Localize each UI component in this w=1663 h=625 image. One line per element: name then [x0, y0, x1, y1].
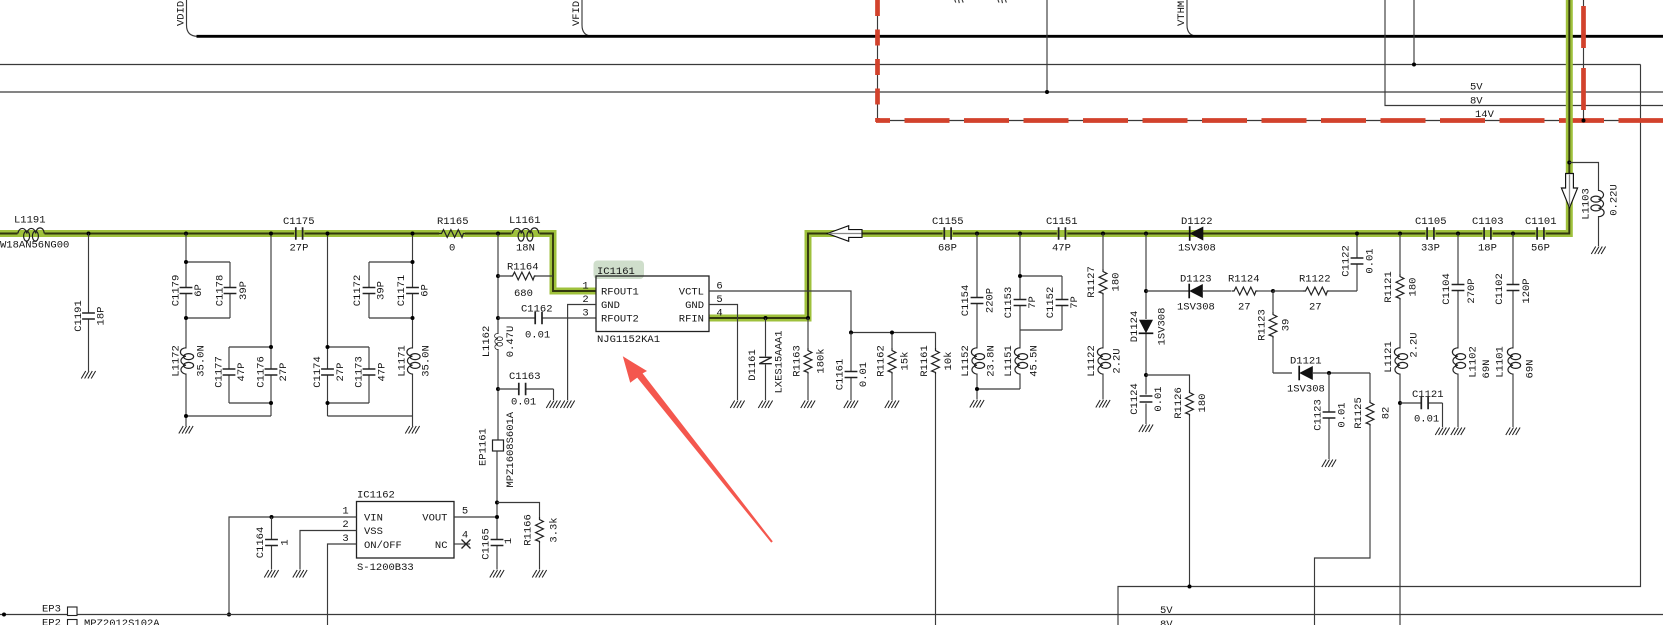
inductor L1121: [1383, 332, 1421, 625]
svg-text:L1152: L1152: [960, 345, 972, 377]
ground R1163: [801, 401, 815, 409]
capacitor C1152: [1045, 287, 1081, 319]
svg-text:MPZ2012S102A: MPZ2012S102A: [84, 618, 160, 625]
svg-text:C1123: C1123: [1313, 399, 1325, 431]
ground R1166: [532, 570, 546, 578]
svg-text:8V: 8V: [1160, 619, 1173, 625]
node junction (186,416): [184, 414, 188, 418]
node junction x=1047 on 5V rail: [1045, 90, 1049, 94]
svg-text:2: 2: [342, 519, 348, 531]
svg-text:D1123: D1123: [1180, 274, 1212, 286]
svg-text:L1172: L1172: [171, 345, 183, 377]
node junction (327.5,347): [326, 345, 330, 349]
svg-text:0.01: 0.01: [525, 330, 550, 342]
node junction red dash vertical on 14V rail: [1582, 119, 1586, 123]
svg-text:ON/OFF: ON/OFF: [364, 540, 402, 552]
op-amp IC1162 pin labels: [364, 513, 448, 553]
svg-text:5V: 5V: [1160, 605, 1173, 617]
svg-text:39P: 39P: [376, 281, 388, 300]
capacitor C1191: [73, 234, 108, 372]
svg-text:C1174: C1174: [312, 356, 324, 388]
svg-text:L1161: L1161: [509, 215, 541, 227]
op-amp IC1162 pin numbers: [342, 506, 468, 546]
node junction (186,262): [184, 260, 188, 264]
inductor L1161 series on bus: [509, 215, 541, 255]
node junction (498,276): [496, 274, 500, 278]
node junction (186,318): [184, 316, 188, 320]
ground C1165: [490, 570, 504, 578]
node junction (1458,233.5): [1456, 232, 1460, 236]
capacitor C1103 series on bus: [1472, 216, 1504, 255]
svg-text:3: 3: [582, 308, 588, 320]
capacitor C1122: [1341, 245, 1377, 277]
resistor R1122: [1273, 234, 1357, 314]
node junction (1020,276): [1018, 274, 1022, 278]
svg-text:R1126: R1126: [1173, 387, 1185, 419]
svg-text:2.2U: 2.2U: [1409, 332, 1421, 357]
svg-text:VIN: VIN: [364, 513, 383, 525]
inductor L1101: [1495, 346, 1537, 427]
wire C1153/C1152 sub-network: [1020, 234, 1062, 390]
svg-text:R1124: R1124: [1228, 274, 1260, 286]
node junction (229,614.5): [227, 613, 231, 617]
capacitor C1176: [256, 356, 291, 388]
node junction (808,318): [806, 316, 810, 320]
svg-text:RFOUT1: RFOUT1: [601, 287, 639, 299]
svg-text:120P: 120P: [1521, 278, 1533, 303]
capacitor C1104: [1441, 234, 1478, 349]
node junction (977,233.5): [975, 232, 979, 236]
svg-text:3: 3: [342, 533, 348, 545]
wire horizontal rail y=64.5: [0, 64, 1641, 66]
node junction (1357,233.5): [1355, 232, 1359, 236]
ground L1101: [1506, 428, 1520, 436]
svg-text:180: 180: [1197, 394, 1209, 413]
svg-text:R1121: R1121: [1383, 271, 1395, 303]
svg-text:C1121: C1121: [1412, 389, 1444, 401]
capacitor C1121: [1400, 389, 1444, 427]
node junction (1146,291): [1144, 289, 1148, 293]
wire pin1 VIN net: [229, 517, 357, 615]
svg-text:23.8N: 23.8N: [986, 345, 998, 377]
wire VTHM vertical with bus entry curve: [1187, 0, 1198, 36]
svg-text:C1153: C1153: [1003, 287, 1015, 319]
op-amp IC1162 box: [357, 502, 455, 559]
ground C1124: [1139, 425, 1153, 433]
wire 14V red dashed horizontal: [876, 118, 1663, 123]
inductor L1122: [1086, 345, 1124, 399]
wire 14V red dashed vertical right x=1583.5: [1583, 0, 1585, 121]
svg-text:D1121: D1121: [1290, 356, 1322, 368]
ground L1102: [1451, 428, 1465, 436]
inductor L1162: [481, 326, 517, 358]
svg-text:2.2U: 2.2U: [1112, 348, 1124, 373]
pin4 NC stub with no-connect X: [454, 540, 471, 549]
ground VSS: [293, 570, 307, 578]
diode D1122 series on bus: [1178, 216, 1216, 255]
svg-text:L1102: L1102: [1468, 346, 1480, 378]
bus thick horizontal line: [197, 35, 1663, 38]
ground R1162: [885, 401, 899, 409]
svg-text:L1151: L1151: [1003, 345, 1015, 377]
svg-text:R1127: R1127: [1086, 266, 1098, 298]
capacitor C1175 series on bus: [283, 216, 315, 255]
diode D1123: [1146, 274, 1231, 314]
svg-text:VTHM: VTHM: [1176, 1, 1188, 26]
capacitor C1155 series on bus: [932, 216, 964, 255]
svg-text:1: 1: [342, 506, 348, 518]
svg-text:VOUT: VOUT: [422, 513, 447, 525]
svg-text:27P: 27P: [278, 363, 290, 382]
svg-text:C1122: C1122: [1341, 245, 1353, 277]
capacitor C1162: [498, 304, 596, 342]
svg-text:47P: 47P: [1052, 243, 1071, 255]
node junction bus x=498: [496, 232, 500, 236]
resistor R1163: [792, 318, 828, 400]
ground pin5 IC1161: [730, 401, 744, 409]
svg-text:C1173: C1173: [354, 356, 366, 388]
node junction (765.5,318): [764, 316, 768, 320]
svg-text:1: 1: [280, 539, 292, 545]
inductor L1152: [960, 345, 1020, 399]
svg-text:C1179: C1179: [171, 275, 183, 307]
svg-text:0.01: 0.01: [1365, 248, 1377, 273]
wire stub marks top edge right: [998, 0, 1006, 3]
wire 5V rail y=92: [0, 91, 1663, 93]
capacitor C1178: [215, 275, 251, 307]
capacitor C1151 series on bus: [1046, 216, 1078, 255]
ground cluster A: [179, 426, 193, 434]
svg-text:4: 4: [716, 308, 722, 320]
svg-text:35.0N: 35.0N: [196, 345, 208, 377]
resistor R1125: [1315, 373, 1393, 625]
node junction (4,614.5): [2, 613, 6, 617]
node junction (892,332.5): [890, 331, 894, 335]
component EP2 square: [68, 620, 78, 625]
diode D1124: [1129, 308, 1169, 346]
svg-text:14V: 14V: [1475, 109, 1495, 121]
node junction x=1414: [1412, 63, 1416, 67]
svg-text:18N: 18N: [516, 243, 535, 255]
svg-text:L1122: L1122: [1086, 345, 1098, 377]
capacitor C1173: [354, 356, 389, 388]
wire highlighted RF path (green highlight): [0, 0, 1569, 318]
ground C1123: [1322, 460, 1336, 468]
svg-text:NC: NC: [435, 540, 448, 552]
ground cluster C: [405, 426, 419, 434]
svg-text:45.5N: 45.5N: [1029, 345, 1041, 377]
capacitor C1102: [1494, 234, 1533, 349]
wire pin2 GND stub to ground: [568, 305, 596, 401]
svg-text:27P: 27P: [290, 243, 309, 255]
svg-text:C1176: C1176: [256, 356, 268, 388]
svg-text:180: 180: [1111, 273, 1123, 292]
wire x=498 vertical bus to EP1161: [497, 234, 499, 441]
svg-text:EP1161: EP1161: [478, 428, 490, 466]
svg-text:C1154: C1154: [960, 285, 972, 317]
svg-text:R1123: R1123: [1257, 309, 1269, 341]
ground C1121: [1435, 428, 1449, 436]
svg-text:82: 82: [1381, 407, 1393, 420]
svg-text:D1122: D1122: [1181, 216, 1213, 228]
node junction (412.5,318): [411, 316, 415, 320]
svg-text:R1162: R1162: [876, 345, 888, 377]
wire pin5 VOUT net: [454, 451, 497, 570]
annotation white arrow pointing down on green wire: [1561, 174, 1577, 208]
svg-text:C1103: C1103: [1472, 216, 1504, 228]
capacitor C1101 series on bus: [1525, 216, 1557, 255]
svg-text:LXES15AAA1: LXES15AAA1: [774, 330, 786, 393]
svg-text:L1101: L1101: [1495, 346, 1507, 378]
node junction (1273,291): [1271, 289, 1275, 293]
svg-text:C1151: C1151: [1046, 216, 1078, 228]
svg-text:18P: 18P: [96, 307, 108, 326]
svg-text:0.01: 0.01: [858, 362, 870, 387]
svg-text:15k: 15k: [900, 352, 912, 371]
node junction (327.5,403): [326, 401, 330, 405]
node junction (1569.3,162.5): [1567, 161, 1571, 165]
node junction (271,403): [269, 401, 273, 405]
svg-text:47P: 47P: [236, 363, 248, 382]
node junction bus x=186: [184, 232, 188, 236]
wire VFID vertical with bus entry curve: [582, 0, 593, 36]
node junction (851,332.5): [849, 331, 853, 335]
capacitor C1105 series on bus: [1415, 216, 1447, 255]
svg-text:R1163: R1163: [792, 345, 804, 377]
component EP1161 ferrite square: [478, 411, 518, 487]
resistor R1164: [498, 262, 553, 301]
node junction (1329,373): [1327, 371, 1331, 375]
svg-text:27P: 27P: [335, 363, 347, 382]
svg-text:C1172: C1172: [352, 275, 364, 307]
resistor R1123: [1257, 291, 1293, 373]
capacitor C1164: [255, 517, 292, 570]
node junction (498,389): [496, 387, 500, 391]
node junction (498,318): [496, 316, 500, 320]
node junction (412.5,262): [411, 260, 415, 264]
svg-text:1SV308: 1SV308: [1287, 384, 1325, 396]
svg-text:R1125: R1125: [1353, 397, 1365, 429]
wire cluster C verticals and rails: [328, 234, 413, 427]
svg-text:C1102: C1102: [1494, 273, 1506, 305]
capacitor C1163: [498, 371, 554, 409]
resistor R1161: [919, 333, 955, 625]
svg-text:39P: 39P: [238, 281, 250, 300]
svg-text:27: 27: [1238, 302, 1251, 314]
svg-text:IC1162: IC1162: [357, 490, 395, 502]
svg-text:33P: 33P: [1421, 243, 1440, 255]
node junction (1189.5,586.5): [1188, 585, 1192, 589]
capacitor C1177: [214, 356, 249, 388]
capacitor C1123: [1313, 373, 1349, 459]
ground L1122: [1096, 400, 1110, 408]
svg-text:1SV308: 1SV308: [1178, 243, 1216, 255]
svg-text:C1177: C1177: [214, 356, 226, 388]
op-amp U-label IC1161 highlight: [594, 261, 645, 280]
wire left cluster A vertical and rails: [186, 234, 271, 427]
node junction (1400,403): [1398, 401, 1402, 405]
svg-text:68P: 68P: [938, 243, 957, 255]
node junction bus x=88.5: [87, 232, 91, 236]
node junction (271,233.5): [269, 232, 273, 236]
node junction (1020,233.5): [1018, 232, 1022, 236]
wire 8V rail from corner x=1385: [1385, 0, 1663, 106]
diode D1121: [1287, 356, 1370, 396]
svg-text:39: 39: [1281, 319, 1293, 332]
svg-text:7P: 7P: [1027, 296, 1039, 309]
svg-text:L1162: L1162: [481, 326, 493, 358]
svg-text:D1124: D1124: [1129, 311, 1141, 343]
svg-text:680: 680: [514, 288, 533, 300]
svg-text:VDID: VDID: [176, 1, 188, 26]
capacitor C1154: [960, 234, 997, 349]
svg-text:EP2: EP2: [42, 618, 61, 625]
node junction (1513,233.5): [1511, 232, 1515, 236]
svg-text:C1165: C1165: [481, 528, 493, 560]
svg-text:C1101: C1101: [1525, 216, 1557, 228]
wire bottom rail y=614.5: [0, 614, 1663, 616]
svg-text:1: 1: [582, 281, 588, 293]
node junction (497,517): [495, 515, 499, 519]
svg-text:69N: 69N: [1481, 360, 1493, 379]
svg-text:180: 180: [1408, 278, 1420, 297]
svg-text:C1171: C1171: [396, 275, 408, 307]
svg-text:18P: 18P: [1478, 243, 1497, 255]
wire 14V rail thin line: [878, 0, 1663, 121]
svg-text:6P: 6P: [420, 284, 432, 297]
svg-text:NJG1152KA1: NJG1152KA1: [597, 334, 660, 346]
resistor R1162: [876, 333, 912, 401]
wire pin6 VCTL net: [709, 291, 936, 333]
svg-text:0.01: 0.01: [1153, 386, 1165, 411]
capacitor C1172: [352, 275, 388, 307]
node junction (497,502.5): [495, 501, 499, 505]
resistor R1121: [1383, 234, 1420, 349]
svg-text:47P: 47P: [377, 363, 389, 382]
inductor L1103 branch: [1569, 163, 1620, 247]
svg-text:C1164: C1164: [255, 527, 267, 559]
node junction (1146,233.5): [1144, 232, 1148, 236]
svg-text:220P: 220P: [985, 288, 997, 313]
svg-text:1SV308: 1SV308: [1157, 308, 1169, 346]
node junction (1103,233.5): [1101, 232, 1105, 236]
svg-text:MPZ1608S601A: MPZ1608S601A: [505, 411, 517, 487]
svg-text:0.01: 0.01: [1337, 402, 1349, 427]
svg-text:0.22U: 0.22U: [1609, 184, 1621, 216]
svg-text:L1191: L1191: [14, 215, 46, 227]
svg-text:C1161: C1161: [835, 359, 847, 391]
svg-text:C1191: C1191: [73, 300, 85, 332]
svg-text:RFIN: RFIN: [679, 314, 704, 326]
capacitor C1161: [835, 333, 871, 401]
inductor L1172: [171, 345, 208, 377]
wire pin2 VSS to ground: [300, 531, 357, 570]
resistor R1127: [1086, 234, 1123, 349]
svg-text:5V: 5V: [1470, 82, 1483, 94]
svg-text:5: 5: [462, 506, 468, 518]
svg-text:R1165: R1165: [437, 216, 469, 228]
svg-text:C1175: C1175: [283, 216, 315, 228]
node junction (412.5,233.5): [411, 232, 415, 236]
capacitor C1171: [396, 275, 432, 307]
capacitor C1153: [1003, 287, 1039, 319]
wire stub marks top edge left: [955, 0, 963, 3]
svg-text:56P: 56P: [1531, 243, 1550, 255]
svg-text:3.3k: 3.3k: [549, 517, 561, 542]
inductor L1102: [1452, 346, 1493, 427]
svg-text:R1122: R1122: [1299, 274, 1331, 286]
op-amp IC1161 pin labels: [601, 287, 704, 326]
svg-text:C1178: C1178: [215, 275, 227, 307]
svg-text:C1124: C1124: [1129, 383, 1141, 415]
svg-text:0.01: 0.01: [1414, 414, 1439, 426]
annotation white arrow pointing left on bus: [827, 226, 862, 242]
svg-text:L1121: L1121: [1383, 341, 1395, 373]
svg-text:270P: 270P: [1466, 278, 1478, 303]
svg-text:1: 1: [503, 538, 515, 544]
svg-text:RFOUT2: RFOUT2: [601, 314, 639, 326]
svg-text:0.47U: 0.47U: [505, 326, 517, 358]
capacitor C1174: [312, 356, 347, 388]
node junction (327.5,233.5): [326, 232, 330, 236]
svg-text:6P: 6P: [193, 284, 205, 297]
svg-text:10k: 10k: [943, 352, 955, 371]
capacitor C1179: [171, 275, 206, 307]
svg-text:VFID: VFID: [571, 1, 583, 26]
svg-text:0: 0: [449, 243, 455, 255]
resistor R1165 series on bus: [437, 216, 469, 255]
svg-text:GND: GND: [685, 300, 704, 312]
ground C1161: [844, 401, 858, 409]
wire pin5 GND stub to ground: [709, 305, 738, 401]
ground C1154 network: [970, 400, 984, 408]
wire right loop: down x=1640.5, left y=586.5, down x=1118: [1118, 65, 1641, 625]
svg-text:180k: 180k: [816, 348, 828, 373]
svg-text:C1105: C1105: [1415, 216, 1447, 228]
inductor L1171: [397, 345, 433, 377]
svg-text:C1152: C1152: [1045, 287, 1057, 319]
wire vertical x=1047 to 5V rail: [1046, 0, 1048, 92]
wire VDID vertical with bus entry curve: [187, 0, 198, 36]
resistor R1124: [1228, 274, 1273, 314]
node junction (271,347): [269, 345, 273, 349]
svg-text:C1163: C1163: [509, 371, 541, 383]
capacitor C1165: [481, 528, 516, 560]
ground C1164: [264, 570, 278, 578]
svg-text:R1166: R1166: [523, 514, 535, 546]
svg-text:7P: 7P: [1069, 296, 1081, 309]
svg-text:0.01: 0.01: [511, 397, 536, 409]
svg-text:IC1161: IC1161: [597, 266, 635, 278]
ground L1103: [1591, 247, 1605, 255]
wire vertical x=1414 to y=64.5 rail: [1413, 0, 1415, 65]
ground C1163: [546, 401, 560, 409]
resistor R1166: [497, 503, 561, 570]
wire x=1146 vertical: [1145, 234, 1147, 425]
wire pin3 ON/OFF down off-page: [328, 544, 357, 625]
diode D1161 ESD suppressor: [747, 318, 786, 400]
svg-text:R1161: R1161: [919, 345, 931, 377]
resistor R1126: [1146, 375, 1209, 587]
ground pin2 IC1161: [560, 401, 574, 409]
node junction (1146,375): [1144, 373, 1148, 377]
svg-text:VSS: VSS: [364, 526, 383, 538]
svg-text:S-1200B33: S-1200B33: [357, 562, 414, 574]
svg-text:1SV308: 1SV308: [1177, 302, 1215, 314]
component EP3 square: [68, 607, 78, 616]
svg-text:C1155: C1155: [932, 216, 964, 228]
svg-text:35.0N: 35.0N: [421, 345, 433, 377]
